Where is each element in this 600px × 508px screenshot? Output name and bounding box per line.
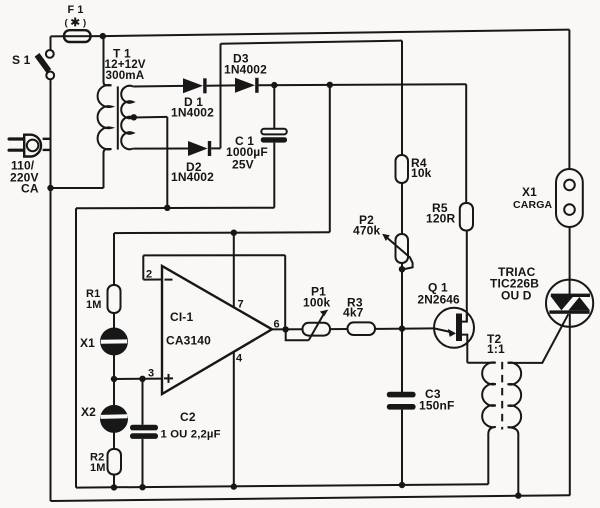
wire: mains left vertical (switch to bottom rail) (50, 79, 52, 501)
node: +V drop to op-amp supply (327, 82, 333, 88)
node: output / feedback / wiper junction (282, 326, 288, 332)
wire: right vertical down to X1 CARGA (568, 30, 570, 169)
svg-text:25V: 25V (232, 158, 254, 172)
wire: D2 cathode stub (211, 147, 220, 149)
wire: mains live from switch corner to fuse (51, 35, 65, 37)
node: R2 ground (111, 484, 117, 490)
svg-text:CA: CA (21, 182, 39, 196)
resistor R3 (348, 322, 376, 335)
wire: node to op-amp pin 3 (114, 378, 162, 380)
diode D3 (235, 78, 259, 93)
wire: pin 4 down to ground rail (233, 352, 235, 487)
resistor R4 (396, 155, 409, 183)
wire: pin 2 input (143, 279, 162, 281)
svg-text:): ) (83, 17, 86, 28)
wire: X1 CARGA bottom to triac top (569, 227, 571, 294)
svg-text:1N4002: 1N4002 (171, 106, 214, 120)
potentiometer P1 (286, 310, 330, 341)
capacitor C3 (387, 392, 416, 485)
svg-text:1M: 1M (86, 299, 102, 311)
wire: R4 to P2 (401, 183, 403, 234)
svg-text:2N2646: 2N2646 (418, 293, 461, 307)
potentiometer P2 (382, 234, 412, 270)
svg-text:7: 7 (238, 299, 244, 311)
wire: T2 secondary top to triac gate (508, 314, 569, 363)
fuse F1 (64, 30, 91, 42)
svg-text:X1: X1 (80, 336, 95, 350)
wire: op-amp output to P1 (272, 328, 303, 330)
wire: top rail to load (sloped scan) (103, 30, 570, 36)
label (*) asterisk (65, 17, 87, 28)
transistor Q1 (UJT 2N2646) (434, 308, 474, 363)
wire: sync line to R4 (221, 41, 403, 44)
svg-text:470k: 470k (353, 224, 380, 238)
wire: rectifier junction vertical (D2 up to sync line) (220, 44, 222, 149)
capacitor C2 (130, 379, 158, 487)
transformer T2 core (dashed) (501, 362, 503, 430)
wire: +V rail from D3 cathode to R5 corner (259, 84, 467, 85)
wire: 0V line (center tap) horizontal (76, 207, 274, 210)
svg-text:4k7: 4k7 (343, 306, 364, 320)
node: sensor divider to pin 3 (111, 376, 117, 382)
node: emitter / P2 / C3 junction (399, 325, 405, 331)
switch S1 (37, 36, 54, 79)
wire: feedback left vertical (142, 255, 144, 279)
wire: down to R1 top (113, 233, 115, 285)
svg-text:4: 4 (236, 353, 243, 365)
node: fuse/top-rail/T1-primary junction (100, 33, 106, 39)
wire: R2 to ground rail (113, 475, 115, 488)
triac TIC226 (546, 280, 593, 327)
svg-text:1N4002: 1N4002 (224, 63, 267, 77)
wire: P2 down through emitter node to C3 (401, 263, 403, 392)
node: pin 7 supply junction (231, 230, 237, 236)
svg-text:10k: 10k (411, 166, 432, 180)
svg-text:1N4002: 1N4002 (171, 170, 214, 184)
svg-text:120R: 120R (426, 212, 455, 226)
svg-text:1M: 1M (90, 462, 106, 474)
resistor R1 (108, 285, 121, 313)
wire: feedback right vertical to output (284, 255, 286, 329)
wire: X1 to node (113, 355, 115, 380)
sensor X2 (100, 405, 128, 433)
svg-text:CARGA: CARGA (513, 199, 553, 211)
node: center-tap meets 0V line (164, 205, 170, 211)
svg-text:300mA: 300mA (106, 69, 145, 82)
wire: R1 to X1 (113, 313, 115, 329)
node: pin4 ground (231, 483, 237, 489)
wire: secondary bottom to D2 anode (133, 148, 188, 150)
wire: 0V line left vertical down to inner ground rail (75, 208, 77, 487)
transformer T2 primary winding (482, 362, 496, 427)
transformer T1 primary winding (98, 36, 112, 188)
wire: Q1 B1 to T2 primary top (467, 362, 495, 364)
svg-text:100k: 100k (303, 296, 330, 310)
transformer T1 secondary winding (121, 86, 133, 150)
wire: feedback top horizontal (143, 254, 285, 256)
node: T1 center tap (131, 114, 137, 120)
node: P2 wiper junction (399, 266, 405, 272)
transformer T1 core (117, 86, 119, 149)
svg-text:X2: X2 (81, 405, 96, 419)
wire: T2 secondary bottom to outer rail (508, 427, 519, 495)
wire: D1 cathode to D3 anode (207, 84, 235, 86)
svg-text:C2: C2 (180, 410, 196, 424)
wire: triac bottom to outer rail (569, 314, 571, 496)
wire: center tap vertical down to 0V line (166, 117, 168, 208)
wire: X2 to R2 (113, 432, 115, 449)
wire: R3 to Q1 emitter (375, 327, 434, 330)
wire: center tap horizontal (133, 116, 167, 119)
svg-text:F 1: F 1 (68, 4, 84, 16)
wire: secondary top to D1 anode (133, 85, 183, 88)
wire: primary return horizontal (51, 187, 104, 189)
node: C2 ground (139, 484, 145, 490)
wire: outer mains rail (51, 495, 571, 501)
svg-text:3: 3 (148, 368, 154, 380)
wire: R5 to Q1 base 2 (466, 231, 468, 322)
wire: sync vertical down to R4 (401, 41, 403, 155)
svg-text:OU D: OU D (501, 289, 532, 303)
wire: node down to X2 (113, 379, 115, 406)
wire: pin 7 supply drop (233, 233, 235, 308)
resistor R2 (108, 449, 122, 475)
svg-text:1:1: 1:1 (487, 342, 505, 356)
wire: P1 to R3 (330, 328, 348, 330)
wire: +V rail corner down to R5 (465, 84, 467, 203)
node: C2 top junction (139, 376, 145, 382)
plug 110/220V CA (8, 135, 51, 157)
transformer T2 secondary winding (508, 363, 522, 428)
diode D1 (183, 78, 207, 93)
resistor R5 (460, 203, 473, 231)
node: C3 ground (399, 482, 405, 488)
capacitor C1 (261, 85, 287, 208)
wire: T2 primary bottom to ground rail (488, 427, 495, 484)
svg-text:X1: X1 (522, 185, 537, 199)
socket X1 CARGA (556, 169, 583, 227)
wire: through fuse (64, 35, 104, 37)
node: T2 secondary on outer rail (515, 492, 521, 498)
svg-text:1 OU 2,2µF: 1 OU 2,2µF (161, 429, 221, 441)
node: plug/primary-return junction (47, 185, 53, 191)
svg-text:(: ( (65, 17, 69, 28)
svg-text:CI-1: CI-1 (170, 310, 193, 324)
svg-text:150nF: 150nF (419, 399, 454, 413)
wire: +V feed line to op-amp pin 7 (329, 85, 331, 233)
svg-text:CA3140: CA3140 (166, 334, 211, 348)
sensor X1 (100, 328, 128, 356)
diode D2 (188, 141, 211, 156)
wire: inner ground rail (76, 484, 488, 487)
node: C1 positive junction (271, 82, 277, 88)
svg-text:S 1: S 1 (12, 53, 31, 67)
op-amp CI-1 (162, 266, 272, 394)
